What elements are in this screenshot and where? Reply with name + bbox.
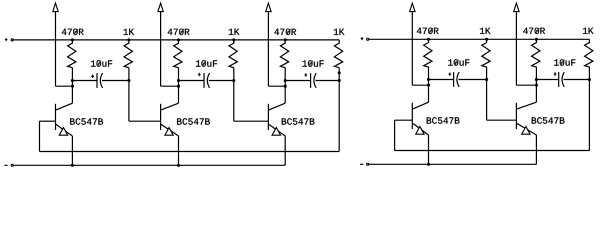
transistor Q3 BC547B (left circuit): [268, 103, 285, 136]
node output arrow OUT2 (left circuit): [158, 3, 179, 86]
label C4 value 10uF: [448, 59, 469, 65]
node output arrow OUT5 (right circuit): [514, 3, 537, 85]
junction dot extra on R6 branch: [338, 71, 341, 74]
node output arrow OUT4 (right circuit): [410, 3, 429, 85]
resistor R7 470R (right circuit): [417, 28, 439, 68]
wire R1 bottom to Q1 collector: [71, 68, 73, 104]
junction dots stage 3 (left circuit): [284, 38, 341, 87]
resistor R9 470R (right circuit): [523, 28, 545, 68]
wire Q4 emitter to 0V rail: [428, 135, 430, 164]
transistor Q5 BC547B (right circuit): [516, 102, 536, 135]
junction dots stage 4 (right circuit): [427, 38, 488, 166]
capacitor C1 10uF (left circuit): [72, 73, 128, 88]
resistor R1 470R (left circuit): [62, 29, 84, 68]
wire 1K R2 bottom to Q2 base: [129, 68, 161, 122]
wire +V rail (right circuit): [369, 38, 590, 40]
wire feedback net (left circuit, R6 bottom to Q1 base): [40, 68, 340, 152]
capacitor C5 10uF (right circuit): [536, 72, 589, 87]
capacitor C3 10uF (left circuit): [285, 73, 339, 88]
resistor R6 1K (left circuit): [334, 29, 345, 68]
node output arrow OUT1 (left circuit): [53, 3, 73, 86]
resistor R8 1K (right circuit): [480, 28, 491, 67]
resistor R3 470R (left circuit): [168, 29, 190, 68]
junction dots stage 1 (left circuit): [71, 38, 131, 167]
wire R7 bottom to Q4 collector: [428, 67, 430, 103]
resistor R4 1K (left circuit): [229, 29, 240, 68]
wire 0V rail (right circuit): [369, 163, 537, 165]
node + supply terminal (right circuit): [361, 37, 369, 40]
resistor R10 1K (right circuit): [583, 28, 594, 67]
capacitor C2 10uF (left circuit): [179, 73, 234, 88]
label C3 value 10uF: [303, 60, 324, 66]
transistor Q2 BC547B (left circuit): [161, 103, 179, 136]
label C2 value 10uF: [196, 60, 217, 66]
junction dots stage 2 (left circuit): [177, 38, 235, 167]
resistor R5 470R (left circuit): [274, 29, 296, 68]
wire 1K R8 bottom to Q5 base: [487, 67, 517, 121]
label C1 value 10uF: [91, 60, 112, 66]
wire feedback net (right circuit, R10 bottom to Q4 base): [395, 67, 590, 151]
wire Q1 emitter to 0V rail: [71, 136, 73, 165]
label Q2 value BC547B: [177, 118, 210, 124]
transistor Q1 BC547B (left circuit): [56, 103, 73, 136]
wire R3 bottom to Q2 collector: [178, 68, 180, 104]
transistor Q4 BC547B (right circuit): [412, 102, 428, 135]
junction dots stage 5 (right circuit): [535, 38, 591, 87]
wire 1K R4 bottom to Q3 base: [234, 68, 269, 122]
label Q4 value BC547B: [427, 117, 460, 123]
label Q1 value BC547B: [70, 118, 103, 124]
capacitor C4 10uF (right circuit): [429, 72, 487, 87]
node - supply terminal (right circuit): [360, 163, 369, 165]
label Q3 value BC547B: [282, 118, 315, 124]
label C5 value 10uF: [554, 59, 575, 65]
resistor R2 1K (left circuit): [124, 29, 135, 68]
node - supply terminal (left circuit): [4, 164, 13, 166]
wire R9 bottom to Q5 collector: [535, 67, 537, 103]
wire Q2 emitter to 0V rail: [178, 136, 180, 165]
node output arrow OUT3 (left circuit): [266, 3, 286, 86]
wire R5 bottom to Q3 collector: [284, 68, 286, 104]
node + supply terminal (left circuit): [5, 38, 13, 41]
wire +V rail (left circuit): [13, 39, 339, 41]
label Q5 value BC547B: [532, 117, 565, 123]
wire Q5 emitter to 0V rail: [535, 135, 537, 164]
wire Q3 emitter to 0V rail: [284, 136, 286, 165]
wire 0V rail (left circuit): [13, 164, 285, 166]
